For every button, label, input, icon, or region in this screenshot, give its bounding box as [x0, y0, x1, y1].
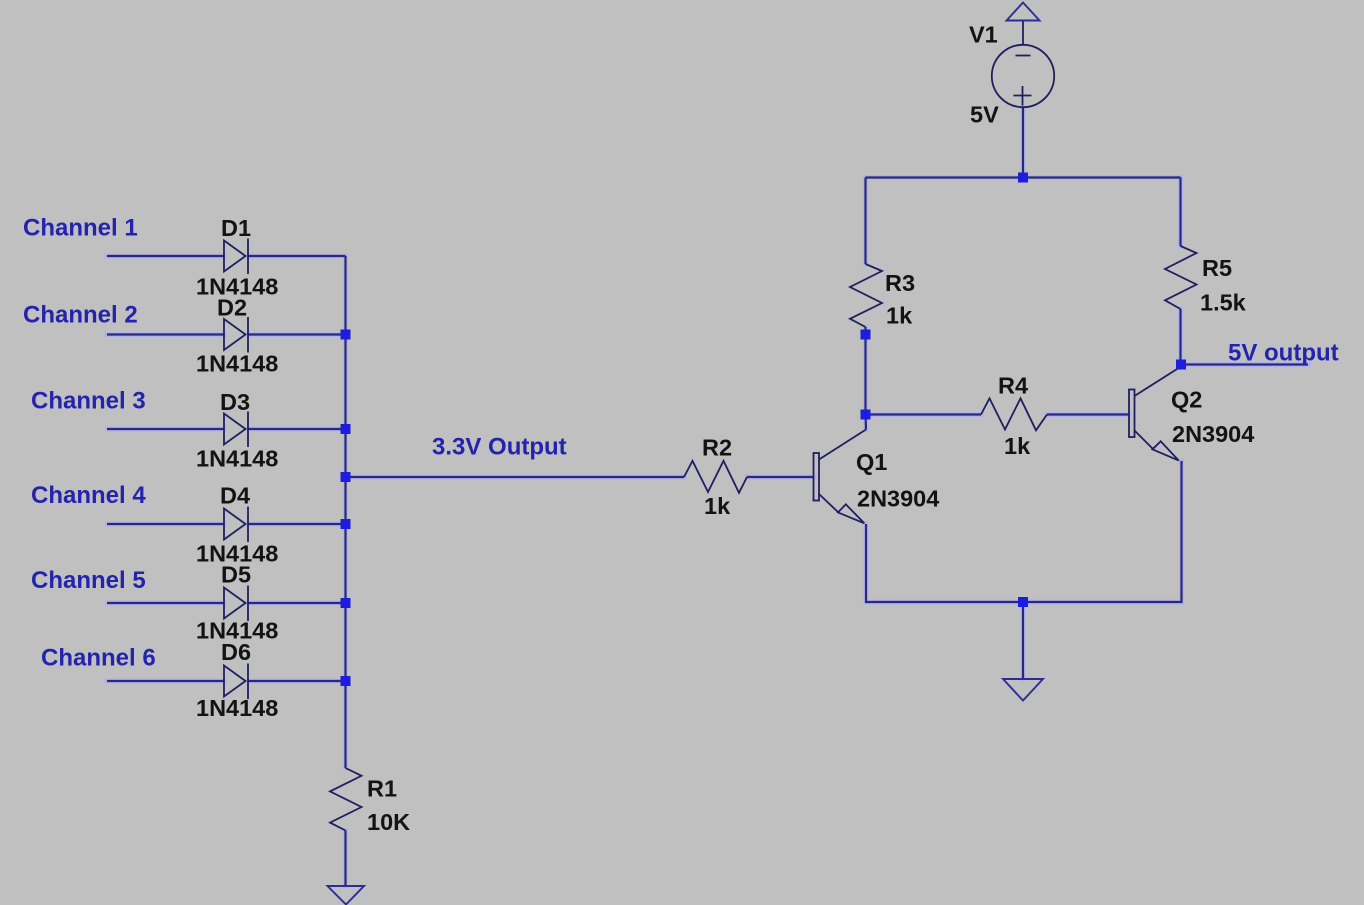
svg-text:Channel 4: Channel 4	[31, 482, 146, 509]
svg-text:Channel 2: Channel 2	[23, 302, 138, 329]
svg-text:3.3V Output: 3.3V Output	[432, 434, 567, 461]
svg-text:D6: D6	[221, 639, 251, 665]
svg-text:1N4148: 1N4148	[196, 695, 278, 721]
svg-text:1.5k: 1.5k	[1200, 290, 1247, 316]
svg-text:1N4148: 1N4148	[196, 351, 278, 377]
svg-text:Q2: Q2	[1171, 387, 1202, 413]
svg-text:R3: R3	[885, 270, 915, 296]
svg-text:D2: D2	[217, 295, 247, 321]
svg-text:1k: 1k	[1004, 433, 1031, 459]
svg-text:D4: D4	[220, 483, 250, 509]
svg-text:1k: 1k	[704, 493, 731, 519]
svg-text:Channel 3: Channel 3	[31, 388, 146, 415]
svg-text:1N4148: 1N4148	[196, 446, 278, 472]
svg-text:Channel 6: Channel 6	[41, 645, 156, 672]
svg-text:V1: V1	[969, 22, 998, 48]
svg-text:Q1: Q1	[856, 449, 887, 475]
svg-text:D5: D5	[221, 562, 251, 588]
svg-text:2N3904: 2N3904	[857, 486, 939, 512]
svg-text:R4: R4	[998, 373, 1028, 399]
svg-text:10K: 10K	[367, 809, 410, 835]
svg-text:D3: D3	[220, 389, 250, 415]
svg-text:5V: 5V	[970, 102, 999, 128]
svg-text:Channel 5: Channel 5	[31, 567, 146, 594]
svg-text:R1: R1	[367, 776, 397, 802]
svg-text:2N3904: 2N3904	[1172, 421, 1254, 447]
svg-text:R2: R2	[702, 435, 732, 461]
svg-text:R5: R5	[1202, 255, 1232, 281]
svg-text:D1: D1	[221, 215, 251, 241]
svg-text:Channel 1: Channel 1	[23, 215, 138, 242]
svg-text:1k: 1k	[886, 303, 913, 329]
svg-text:5V output: 5V output	[1228, 340, 1339, 367]
